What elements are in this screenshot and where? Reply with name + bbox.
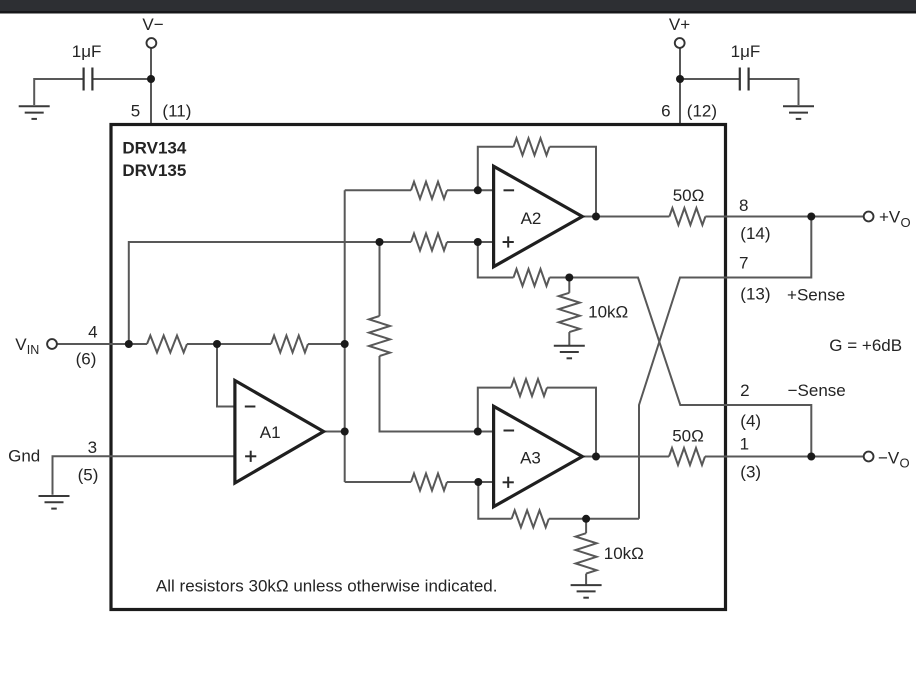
svg-text:A2: A2 <box>521 209 542 228</box>
svg-text:1: 1 <box>740 434 749 453</box>
svg-text:(11): (11) <box>162 102 191 121</box>
svg-text:−V: −V <box>878 448 900 467</box>
svg-text:O: O <box>900 456 910 471</box>
svg-text:O: O <box>901 215 911 230</box>
svg-text:7: 7 <box>739 254 748 273</box>
svg-text:(14): (14) <box>740 224 770 243</box>
svg-text:(5): (5) <box>78 466 99 485</box>
svg-text:6: 6 <box>661 102 670 121</box>
svg-text:8: 8 <box>739 196 748 215</box>
svg-text:50Ω: 50Ω <box>673 186 705 205</box>
svg-text:1μF: 1μF <box>731 42 761 61</box>
svg-text:DRV134: DRV134 <box>122 139 186 158</box>
svg-text:3: 3 <box>88 438 97 457</box>
svg-text:2: 2 <box>740 381 749 400</box>
svg-text:V: V <box>15 335 27 354</box>
svg-text:+V: +V <box>879 208 901 227</box>
svg-text:A3: A3 <box>520 449 541 468</box>
svg-text:5: 5 <box>131 102 140 121</box>
svg-text:V−: V− <box>142 15 163 34</box>
svg-text:4: 4 <box>88 323 97 342</box>
svg-text:1μF: 1μF <box>72 42 102 61</box>
svg-text:10kΩ: 10kΩ <box>604 544 644 563</box>
svg-text:All resistors 30kΩ unless othe: All resistors 30kΩ unless otherwise indi… <box>156 576 498 595</box>
svg-text:+Sense: +Sense <box>787 286 845 305</box>
svg-text:(3): (3) <box>740 463 761 482</box>
svg-text:(13): (13) <box>740 285 770 304</box>
svg-text:Gnd: Gnd <box>8 447 40 466</box>
svg-text:(6): (6) <box>76 350 97 369</box>
svg-text:−Sense: −Sense <box>788 381 846 400</box>
svg-text:IN: IN <box>27 343 40 357</box>
svg-text:(12): (12) <box>687 102 717 121</box>
svg-text:10kΩ: 10kΩ <box>588 302 628 321</box>
svg-text:50Ω: 50Ω <box>672 427 704 446</box>
svg-text:V+: V+ <box>669 15 690 34</box>
svg-text:(4): (4) <box>740 411 761 430</box>
svg-text:DRV135: DRV135 <box>122 161 186 180</box>
svg-text:G = +6dB: G = +6dB <box>829 336 902 355</box>
svg-text:A1: A1 <box>260 423 281 442</box>
